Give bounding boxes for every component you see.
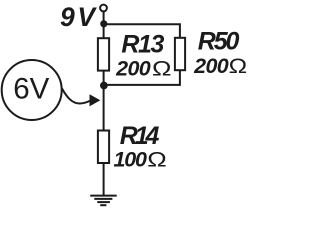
resistor R14 body — [98, 131, 109, 164]
svg-text:R50: R50 — [198, 28, 240, 56]
wire: middle junction to R14 top — [103, 85, 105, 131]
svg-text:Ω: Ω — [229, 55, 248, 78]
svg-text:200: 200 — [115, 57, 151, 81]
resistor R13 body — [98, 38, 109, 70]
wire: R13 bottom to middle junction — [103, 71, 105, 86]
wire: top horizontal to R50 branch — [104, 24, 180, 37]
svg-text:Ω: Ω — [152, 58, 172, 81]
resistor R50 body — [175, 38, 185, 70]
ground symbol — [90, 196, 117, 206]
svg-text:200: 200 — [193, 54, 229, 78]
terminal: 9V supply open circle — [100, 5, 107, 12]
svg-text:Ω: Ω — [147, 149, 167, 172]
junction dot: top node — [100, 20, 107, 27]
svg-text:9V: 9V — [60, 2, 98, 32]
wire: R50 bottom to middle junction — [104, 71, 180, 85]
svg-text:100: 100 — [114, 148, 148, 172]
svg-text:R14: R14 — [120, 122, 160, 150]
annotation arrow curve — [62, 89, 90, 104]
wire: 9V terminal to top junction — [103, 12, 105, 24]
annotation circle 6V — [2, 60, 62, 120]
wire: R14 bottom to ground — [103, 163, 105, 195]
wire: top junction to R13 top — [103, 24, 105, 39]
annotation arrow head — [90, 94, 101, 106]
junction dot: middle node — [100, 82, 108, 90]
svg-text:R13: R13 — [121, 31, 164, 59]
svg-text:6V: 6V — [13, 73, 49, 106]
